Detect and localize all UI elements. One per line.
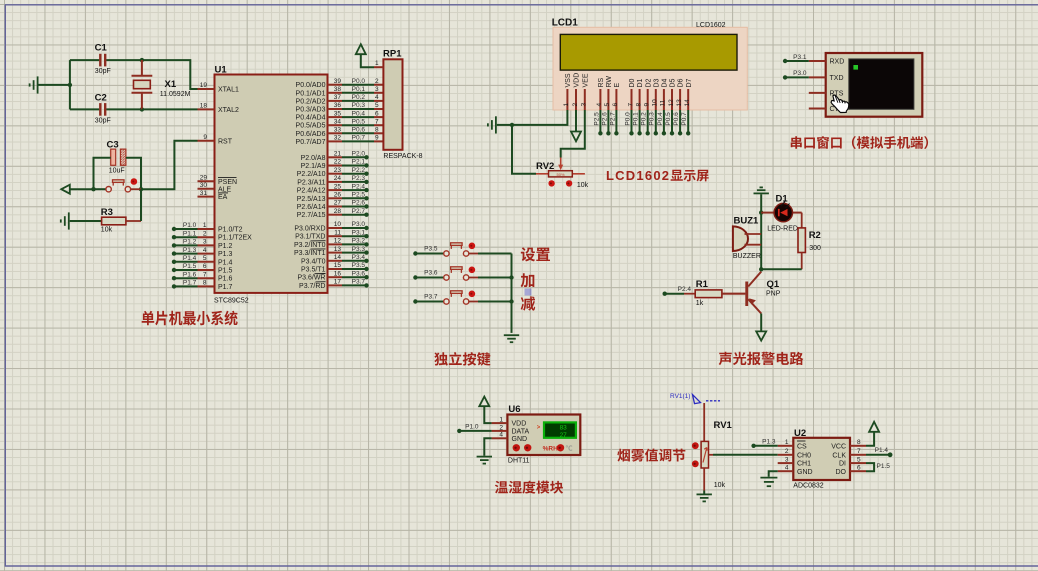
- pin 17 stub: [328, 284, 343, 286]
- svg-text:D3: D3: [653, 78, 660, 87]
- svg-text:7: 7: [627, 103, 634, 107]
- ground (R3): [61, 212, 69, 229]
- svg-text:D4: D4: [662, 78, 669, 87]
- pin 37 stub: [328, 100, 343, 102]
- svg-text:18: 18: [200, 103, 208, 110]
- wire P1.6: [174, 277, 198, 279]
- svg-text:P2.7: P2.7: [352, 208, 366, 215]
- U2 pin 6 DO: [850, 470, 866, 472]
- wire P3.2: [342, 243, 367, 245]
- svg-text:4: 4: [596, 103, 603, 107]
- svg-text:P0.7: P0.7: [352, 135, 366, 142]
- svg-text:3: 3: [375, 86, 379, 93]
- svg-text:P0.2: P0.2: [352, 94, 366, 101]
- U2 pin 7 CLK: [850, 454, 866, 456]
- LED D1: [761, 194, 802, 233]
- svg-text:6: 6: [612, 103, 619, 107]
- pin 22 stub: [328, 165, 343, 167]
- U2 pin 1 CS: [778, 445, 794, 447]
- svg-text:%RH: %RH: [543, 446, 558, 453]
- svg-text:P3.7/RD: P3.7/RD: [299, 283, 325, 290]
- svg-text:P0.4: P0.4: [657, 112, 664, 126]
- svg-text:9: 9: [203, 134, 207, 141]
- svg-text:10: 10: [652, 99, 659, 107]
- wire VCC to power: [866, 432, 874, 446]
- svg-text:TXD: TXD: [830, 75, 844, 82]
- svg-text:VCC: VCC: [831, 443, 846, 450]
- svg-text:24: 24: [334, 175, 342, 182]
- label: minus: [521, 296, 536, 310]
- pin 32 stub: [328, 140, 343, 142]
- svg-text:1k: 1k: [696, 300, 704, 307]
- wire ground to node A: [39, 84, 70, 86]
- svg-text:P2.7: P2.7: [609, 112, 616, 126]
- reset button: [94, 178, 142, 192]
- U6 celsius mark: [566, 445, 573, 451]
- svg-text:P0.5/AD5: P0.5/AD5: [296, 123, 326, 130]
- capacitor C3: [94, 140, 142, 190]
- svg-text:P1.0: P1.0: [465, 424, 479, 431]
- svg-text:PSEN: PSEN: [218, 179, 237, 186]
- pin 25 stub: [328, 189, 343, 191]
- svg-text:STC89C52: STC89C52: [214, 297, 249, 304]
- pin 14 stub: [328, 260, 343, 262]
- U6 pin 2 DATA: [492, 430, 508, 432]
- svg-text:11.0592M: 11.0592M: [160, 91, 191, 98]
- RV2 wiper arrow: [560, 158, 562, 166]
- svg-text:P0.5: P0.5: [352, 118, 366, 125]
- svg-text:11: 11: [660, 99, 667, 106]
- svg-text:D2: D2: [645, 78, 652, 87]
- svg-text:GND: GND: [512, 436, 528, 443]
- ground (crystal section): [30, 76, 38, 93]
- pin 39 stub: [328, 84, 343, 86]
- pin 4 stub: [198, 253, 215, 255]
- LCD pin 3 VEE: [584, 89, 586, 110]
- svg-text:29: 29: [200, 175, 208, 182]
- wire P2.3: [342, 181, 367, 183]
- LCD pin 4 RS: [599, 89, 601, 110]
- wire alarm vertical: [760, 194, 762, 269]
- node P1.4: [172, 260, 176, 264]
- svg-text:DO: DO: [836, 469, 847, 476]
- wire P3.1: [342, 235, 367, 237]
- svg-text:ADC0832: ADC0832: [793, 483, 823, 490]
- node bus row3: [509, 299, 513, 303]
- node reset-right: [139, 187, 143, 191]
- pin 23 stub: [328, 173, 343, 175]
- pin 33 stub: [328, 132, 343, 134]
- label: minimal MCU system: [142, 311, 155, 325]
- svg-text:P3.7: P3.7: [424, 294, 438, 301]
- svg-text:RESPACK-8: RESPACK-8: [383, 153, 422, 160]
- svg-text:P1.4: P1.4: [875, 447, 889, 454]
- svg-text:RV1(1): RV1(1): [670, 393, 690, 400]
- svg-text:P2.3: P2.3: [352, 175, 366, 182]
- svg-text:6: 6: [203, 263, 207, 270]
- pin 29 stub: [198, 180, 215, 182]
- svg-text:P2.4/A12: P2.4/A12: [297, 188, 326, 195]
- svg-text:1: 1: [203, 222, 207, 229]
- wire LCD D4 net P0.4: [663, 110, 665, 133]
- svg-text:P2.6: P2.6: [601, 112, 608, 126]
- svg-text:5: 5: [203, 255, 207, 262]
- wire VEE to RV2 wiper: [561, 110, 585, 158]
- node LED left: [759, 210, 763, 214]
- svg-text:RW: RW: [606, 76, 613, 88]
- svg-text:30: 30: [200, 182, 208, 189]
- svg-text:4: 4: [499, 432, 503, 439]
- U2 pin 8 VCC: [850, 445, 866, 447]
- push button P3.7: [413, 291, 511, 305]
- svg-text:P3.5/T1: P3.5/T1: [301, 267, 326, 274]
- svg-text:GND: GND: [797, 469, 813, 476]
- svg-text:LCD1602: LCD1602: [696, 22, 726, 29]
- wire P2.7: [342, 214, 367, 216]
- wire P1.3 to CS: [754, 445, 778, 447]
- svg-text:2: 2: [375, 78, 379, 85]
- power arrow left (reset row): [61, 185, 93, 194]
- svg-text:U6: U6: [508, 404, 520, 415]
- svg-text:300: 300: [809, 245, 821, 252]
- svg-text:7: 7: [203, 271, 207, 278]
- svg-text:P0.1: P0.1: [633, 112, 640, 126]
- svg-text:Q1: Q1: [767, 279, 780, 290]
- svg-text:P3.6/WR: P3.6/WR: [297, 275, 325, 282]
- svg-text:P0.3: P0.3: [352, 102, 366, 109]
- svg-text:38: 38: [334, 86, 342, 93]
- wire button bus: [511, 254, 513, 333]
- LCD pin 12 D5: [671, 89, 673, 110]
- pin 11 stub: [328, 235, 343, 237]
- node bus row2: [509, 275, 513, 279]
- wire R2 bottom to collector node: [761, 268, 802, 270]
- WR overline: [315, 273, 326, 275]
- svg-text:P2.4: P2.4: [678, 286, 692, 293]
- label: temp-humidity module: [495, 481, 508, 494]
- pin 13 stub: [328, 252, 343, 254]
- label: smoke value adjust: [617, 449, 630, 462]
- svg-text:P0.3: P0.3: [649, 112, 656, 126]
- svg-text:P0.4: P0.4: [352, 110, 366, 117]
- svg-text:P1.3: P1.3: [218, 251, 233, 258]
- svg-text:P3.7: P3.7: [352, 279, 366, 286]
- wire P0.1 to RP1: [342, 92, 374, 94]
- svg-text:P1.4: P1.4: [218, 259, 233, 266]
- svg-text:8: 8: [635, 103, 642, 107]
- svg-text:P0.1/AD1: P0.1/AD1: [296, 90, 326, 97]
- wire vertical C1-C2 left: [69, 60, 71, 109]
- resistor R2: [798, 213, 821, 270]
- capacitor C2: [70, 108, 99, 110]
- svg-text:7: 7: [857, 448, 861, 455]
- svg-text:1: 1: [375, 60, 379, 67]
- svg-text:P1.1/T2EX: P1.1/T2EX: [218, 235, 252, 242]
- svg-text:2: 2: [499, 424, 503, 431]
- wire emitter to power-down: [760, 314, 762, 332]
- svg-text:LCD1602: LCD1602: [606, 168, 670, 183]
- svg-text:4: 4: [203, 247, 207, 254]
- LCD pin 7 D0: [631, 89, 633, 110]
- wire P3.7: [342, 284, 367, 286]
- svg-text:10k: 10k: [101, 226, 113, 233]
- svg-text:P1.0: P1.0: [183, 222, 197, 229]
- wire P2.2: [342, 173, 367, 175]
- pin 6 stub: [198, 269, 215, 271]
- wire P3.0: [342, 227, 367, 229]
- pin 16 stub: [328, 276, 343, 278]
- svg-text:P0.7/AD7: P0.7/AD7: [296, 139, 326, 146]
- node P1.6: [172, 276, 176, 280]
- svg-text:3: 3: [203, 239, 207, 246]
- U2 pin 3 CH1: [778, 462, 794, 464]
- svg-text:P2.2/A10: P2.2/A10: [297, 171, 326, 178]
- wire LCD D6 net P0.6: [679, 110, 681, 133]
- svg-text:P3.1/TXD: P3.1/TXD: [295, 234, 325, 241]
- pin 2 stub: [198, 236, 215, 238]
- pin 24 stub: [328, 181, 343, 183]
- wire CLK to P1.4: [866, 454, 890, 456]
- resistor R3: [70, 189, 141, 233]
- svg-text:P1.3: P1.3: [762, 439, 776, 446]
- svg-text:30pF: 30pF: [95, 68, 111, 75]
- wire P1.5: [174, 269, 198, 271]
- svg-text:P2.7/A15: P2.7/A15: [297, 212, 326, 219]
- wire P3.1 to RXD: [785, 60, 809, 62]
- svg-text:P0.1: P0.1: [352, 86, 366, 93]
- svg-text:>: >: [537, 425, 541, 431]
- LCD pin 2 VDD: [575, 89, 577, 110]
- pin 12 stub: [328, 243, 343, 245]
- wire P2.6: [342, 206, 367, 208]
- svg-text:E: E: [614, 83, 621, 88]
- LCD pin 11 D4: [663, 89, 665, 110]
- svg-text:21: 21: [334, 151, 342, 158]
- svg-text:5: 5: [857, 457, 861, 464]
- label: serial window (phone sim): [791, 136, 802, 149]
- wire P1.1: [174, 236, 198, 238]
- RD overline: [316, 281, 326, 283]
- svg-text:P0.6/AD6: P0.6/AD6: [296, 131, 326, 138]
- svg-text:C1: C1: [95, 43, 108, 54]
- wire LCD D1 net P0.1: [639, 110, 641, 133]
- svg-text:P1.5: P1.5: [183, 263, 197, 270]
- node P1.7: [172, 284, 176, 288]
- svg-text:5: 5: [604, 103, 611, 107]
- svg-text:P2.6: P2.6: [352, 200, 366, 207]
- svg-text:36: 36: [334, 102, 342, 109]
- svg-text:35: 35: [334, 110, 342, 117]
- svg-text:27: 27: [334, 200, 342, 207]
- svg-text:83: 83: [560, 424, 568, 431]
- svg-text:P2.0: P2.0: [352, 151, 366, 158]
- svg-text:P2.5: P2.5: [593, 112, 600, 126]
- wire RP1 pin1 to power: [361, 55, 374, 67]
- svg-text:1: 1: [563, 103, 570, 107]
- mouse hand cursor: [831, 95, 849, 113]
- svg-text:DATA: DATA: [512, 429, 530, 436]
- svg-text:28: 28: [334, 208, 342, 215]
- pin 21 stub: [328, 156, 343, 158]
- power arrow down (emitter): [756, 331, 766, 340]
- svg-text:16: 16: [334, 270, 342, 277]
- svg-text:9: 9: [375, 135, 379, 142]
- wire VSS to ground: [512, 110, 567, 125]
- svg-text:P3.6: P3.6: [424, 270, 438, 277]
- svg-text:P3.4: P3.4: [352, 254, 366, 261]
- pin 7 stub: [198, 277, 215, 279]
- svg-text:P0.7: P0.7: [681, 112, 688, 126]
- svg-text:37: 37: [334, 94, 342, 101]
- svg-text:P0.0: P0.0: [352, 78, 366, 85]
- U6 inner display: [544, 422, 576, 437]
- wire probe to RV1: [703, 403, 705, 441]
- svg-text:P3.3/INT1: P3.3/INT1: [294, 250, 326, 257]
- ground (alarm top): [754, 187, 769, 193]
- wire reset node to RST pin: [141, 141, 198, 189]
- pin 1 stub: [374, 66, 383, 68]
- svg-text:RS: RS: [598, 77, 605, 87]
- U2 pin 2 CH0: [778, 454, 794, 456]
- svg-text:X1: X1: [165, 79, 177, 90]
- svg-text:12: 12: [668, 99, 675, 107]
- wire P1.3: [174, 253, 198, 255]
- svg-text:ALE: ALE: [218, 186, 232, 193]
- pin 15 stub: [328, 268, 343, 270]
- blue ghost cursor: [525, 289, 532, 296]
- LCD pin 13 D6: [679, 89, 681, 110]
- pin 35 stub: [328, 116, 343, 118]
- pin 26 stub: [328, 197, 343, 199]
- pin 34 stub: [328, 124, 343, 126]
- wire RV1 bottom to ground: [703, 468, 705, 491]
- svg-text:BUZZER: BUZZER: [733, 253, 761, 260]
- wire P2.4: [342, 189, 367, 191]
- svg-text:26: 26: [334, 192, 342, 199]
- INT1 overline: [311, 248, 326, 250]
- svg-text:DHT11: DHT11: [508, 458, 530, 465]
- svg-text:P2.4: P2.4: [352, 183, 366, 190]
- svg-text:30pF: 30pF: [95, 118, 111, 125]
- svg-text:P2.0/A8: P2.0/A8: [301, 155, 326, 162]
- wire LCD D5 net P0.5: [671, 110, 673, 133]
- LCD pin 6 E: [615, 89, 617, 110]
- PSEN overline: [218, 176, 237, 178]
- svg-text:10: 10: [334, 221, 342, 228]
- LCD pin 10 D3: [655, 89, 657, 110]
- pin 10 stub: [328, 227, 343, 229]
- svg-text:LCD1: LCD1: [552, 18, 579, 29]
- pin 3 stub: [198, 244, 215, 246]
- LCD screen: [560, 34, 737, 70]
- wire P2.1: [342, 165, 367, 167]
- node VSS/RV2 junction: [510, 123, 514, 127]
- svg-text:P3.2/INT0: P3.2/INT0: [294, 242, 326, 249]
- svg-text:13: 13: [334, 246, 342, 253]
- LCD pin 8 D1: [639, 89, 641, 110]
- U2 pin 5 DI: [850, 462, 866, 464]
- svg-text:R1: R1: [696, 279, 709, 290]
- potentiometer RV1: [692, 420, 733, 489]
- terminal pin stub: [809, 60, 826, 62]
- ground (LCD VSS): [488, 116, 496, 133]
- svg-text:P3.6: P3.6: [352, 270, 366, 277]
- wire LCD D0 net P0.0: [631, 110, 633, 133]
- svg-text:R3: R3: [101, 207, 113, 218]
- svg-text:P3.3: P3.3: [352, 246, 366, 253]
- pin 30 stub: [198, 188, 215, 190]
- svg-text:CH1: CH1: [797, 461, 811, 468]
- svg-text:P1.2: P1.2: [183, 239, 197, 246]
- svg-text:4: 4: [785, 465, 789, 472]
- wire P1.4: [174, 261, 198, 263]
- wire P1.7: [174, 285, 198, 287]
- pin 1 stub: [198, 228, 215, 230]
- push button P3.6: [413, 267, 511, 281]
- INT0 overline: [311, 240, 326, 242]
- svg-text:P3.0: P3.0: [793, 70, 807, 77]
- node collector: [759, 267, 763, 271]
- label: plus: [521, 273, 535, 287]
- svg-text:2: 2: [203, 230, 207, 237]
- wire P1.2: [174, 244, 198, 246]
- svg-text:1: 1: [499, 417, 503, 424]
- svg-text:8: 8: [857, 439, 861, 446]
- pin 19 stub: [198, 88, 215, 90]
- svg-text:8: 8: [375, 127, 379, 134]
- ground (U6): [477, 457, 492, 464]
- label: independent keys: [434, 352, 448, 365]
- svg-text:RXD: RXD: [830, 59, 845, 66]
- svg-text:10k: 10k: [577, 182, 589, 189]
- svg-text:34: 34: [334, 118, 342, 125]
- wire RV1 wiper to CH0: [709, 454, 714, 456]
- node P1.2: [172, 243, 176, 247]
- terminal pin stub: [809, 92, 826, 94]
- terminal pin stub: [809, 76, 826, 78]
- wire LCD D2 net P0.2: [647, 110, 649, 133]
- svg-text:D1: D1: [637, 78, 644, 87]
- wire P3.5: [342, 268, 367, 270]
- wire P0.4 to RP1: [342, 116, 374, 118]
- wire P3.0 to TXD: [785, 76, 809, 78]
- capacitor C1: [70, 59, 99, 61]
- svg-text:P0.6: P0.6: [673, 112, 680, 126]
- svg-text:P3.1: P3.1: [352, 229, 366, 236]
- svg-text:P3.0/RXD: P3.0/RXD: [294, 226, 325, 233]
- svg-text:P2.5/A13: P2.5/A13: [297, 196, 326, 203]
- svg-text:9: 9: [644, 103, 651, 107]
- svg-text:5: 5: [375, 102, 379, 109]
- svg-text:P1.2: P1.2: [218, 243, 233, 250]
- svg-text:P0.4/AD4: P0.4/AD4: [296, 115, 326, 122]
- power arrow (RP1): [356, 44, 366, 54]
- wire DI-DO loop P1.5: [866, 463, 874, 471]
- wire P3.4: [342, 260, 367, 262]
- ground (U2): [760, 478, 777, 487]
- label: set: [521, 247, 535, 261]
- node reset-left: [91, 187, 95, 191]
- svg-text:R2: R2: [809, 230, 821, 241]
- svg-text:XTAL1: XTAL1: [218, 87, 239, 94]
- svg-text:12: 12: [334, 238, 342, 245]
- svg-text:P0.0/AD0: P0.0/AD0: [296, 82, 326, 89]
- svg-text:14: 14: [334, 254, 342, 261]
- svg-text:C2: C2: [95, 93, 107, 104]
- svg-text:P3.1: P3.1: [793, 54, 807, 61]
- wire P0.5 to RP1: [342, 124, 374, 126]
- svg-text:39: 39: [334, 78, 342, 85]
